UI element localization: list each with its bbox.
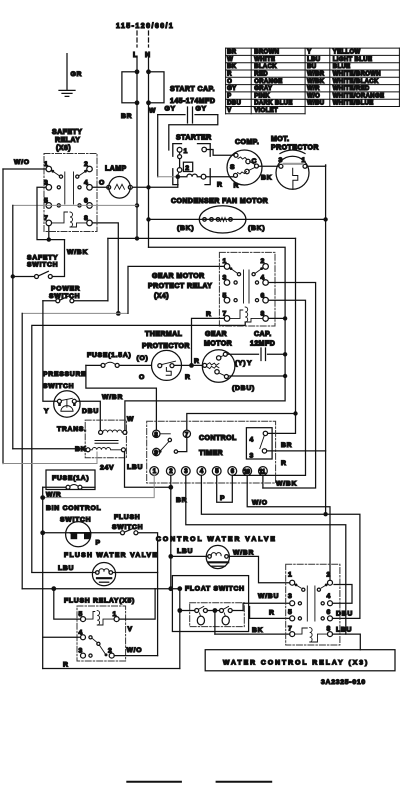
svg-text:2: 2 xyxy=(169,469,173,475)
svg-text:THERMAL: THERMAL xyxy=(145,331,183,338)
relay X6 arm pin2 xyxy=(79,170,87,175)
svg-text:BK: BK xyxy=(227,64,237,70)
footer line left xyxy=(127,781,181,783)
svg-text:R: R xyxy=(234,183,240,190)
timer pin7 contact xyxy=(178,438,187,452)
timer pin 3 xyxy=(181,467,190,476)
svg-text:WHITE: WHITE xyxy=(254,57,275,63)
wire float mid drop xyxy=(214,611,216,635)
fuse 1.5A xyxy=(101,363,105,367)
svg-text:COMP.: COMP. xyxy=(235,139,259,146)
svg-text:3A2325-010: 3A2325-010 xyxy=(321,679,366,686)
relay X6 arm pin1 xyxy=(51,170,59,175)
svg-text:FLUSH: FLUSH xyxy=(114,514,140,521)
junction dots plug xyxy=(135,69,140,74)
svg-text:START CAP.: START CAP. xyxy=(170,86,215,93)
wire W/R rail xyxy=(42,487,44,668)
relay X6 bars xyxy=(65,172,74,204)
relay X3 box xyxy=(286,564,340,645)
svg-text:C: C xyxy=(252,158,258,165)
junction starter bottom xyxy=(176,174,181,179)
float contacts xyxy=(195,609,199,613)
relay X5 arm xyxy=(92,638,106,654)
svg-text:4: 4 xyxy=(327,593,332,600)
flush switch xyxy=(121,531,125,535)
svg-text:BR: BR xyxy=(227,50,237,56)
wire X4 pin7 to gear node xyxy=(192,318,225,365)
svg-text:(X4): (X4) xyxy=(154,293,169,300)
svg-text:BLUE: BLUE xyxy=(333,64,351,70)
svg-text:WHITE/BLUE: WHITE/BLUE xyxy=(333,101,374,107)
junction BR-powerswitch wire xyxy=(135,236,139,240)
relay X5 box xyxy=(77,606,126,661)
wire thermal to gear motor xyxy=(175,364,203,366)
protector heater bar xyxy=(284,163,303,165)
junction flush to X5 pin5 xyxy=(51,586,56,591)
svg-text:115-120/60/1: 115-120/60/1 xyxy=(116,23,174,30)
wire W/O left rail xyxy=(2,169,4,464)
svg-text:PRESSURE: PRESSURE xyxy=(43,371,86,378)
svg-text:PINK: PINK xyxy=(254,93,270,99)
svg-text:12MFD: 12MFD xyxy=(250,341,275,348)
svg-text:FLUSH WATER VALVE: FLUSH WATER VALVE xyxy=(64,552,158,559)
power switch xyxy=(56,299,60,303)
junction R rail timer pin4 wire xyxy=(323,512,327,516)
svg-text:FUSE(1A): FUSE(1A) xyxy=(52,475,89,482)
svg-text:W/BR: W/BR xyxy=(233,550,254,557)
fuse 1A xyxy=(43,486,66,488)
svg-text:LBU: LBU xyxy=(336,627,352,634)
timer pin 9 xyxy=(153,448,160,455)
wire float to X3 pin3 W/BU xyxy=(243,603,290,610)
svg-text:Y: Y xyxy=(307,50,311,56)
svg-text:W: W xyxy=(149,108,156,115)
wire timer pin10 W/O xyxy=(247,475,330,580)
svg-text:SWITCH: SWITCH xyxy=(49,293,80,300)
capacitor start cap xyxy=(158,107,218,123)
junction BR-gray row xyxy=(135,203,139,207)
svg-text:R: R xyxy=(206,311,212,318)
wire timer pin7 top xyxy=(187,414,296,431)
svg-text:PROTECTOR: PROTECTOR xyxy=(142,343,190,350)
wire valve right to riser xyxy=(113,572,158,574)
svg-text:SAFETY: SAFETY xyxy=(27,255,58,262)
svg-text:DBU: DBU xyxy=(227,101,241,107)
timer pin 6 xyxy=(228,467,237,476)
timer pin 7 xyxy=(183,430,190,437)
svg-text:2: 2 xyxy=(327,572,332,579)
svg-text:6: 6 xyxy=(231,469,235,475)
svg-text:4: 4 xyxy=(200,469,204,475)
svg-text:V: V xyxy=(128,626,133,633)
svg-text:W/R: W/R xyxy=(46,492,61,499)
wire flush switch to valve riser xyxy=(138,533,158,656)
wire starter bottom row gray xyxy=(158,176,176,178)
control timer box xyxy=(147,421,276,483)
svg-text:S: S xyxy=(230,164,235,171)
relay X3 arm pin2 xyxy=(321,584,328,588)
svg-text:DBU: DBU xyxy=(336,611,353,618)
svg-text:(BK): (BK) xyxy=(177,225,194,232)
protector bimetal xyxy=(293,168,298,189)
wire BK secondary left xyxy=(13,448,86,450)
thermal protector circle xyxy=(152,350,182,380)
svg-text:FLUSH RELAY(X5): FLUSH RELAY(X5) xyxy=(64,598,135,605)
junction pin2 LBU xyxy=(168,485,173,490)
wire flush relay top row xyxy=(22,588,180,590)
svg-text:(X6): (X6) xyxy=(56,145,71,152)
starter bracket top-left xyxy=(173,144,182,157)
svg-text:3: 3 xyxy=(250,453,255,460)
svg-text:W/R: W/R xyxy=(307,86,320,92)
control water valve circle xyxy=(206,545,229,568)
svg-text:GY: GY xyxy=(227,86,236,92)
junction W-lamp wire xyxy=(146,185,150,189)
svg-text:O: O xyxy=(227,79,232,85)
svg-text:Y: Y xyxy=(247,360,252,367)
wire N lead xyxy=(148,58,150,72)
starter terminal 1 xyxy=(177,147,182,152)
wire N dashed lead xyxy=(148,31,150,47)
relay X6 coil xyxy=(52,212,87,227)
junction pin8 W net xyxy=(283,316,287,320)
wire power switch riser xyxy=(107,238,109,300)
wire X6 pin1 W/O xyxy=(3,168,46,170)
wire power switch left to pressure xyxy=(43,301,58,402)
starter contact below 1 xyxy=(178,155,182,159)
svg-text:LAMP: LAMP xyxy=(105,166,127,173)
svg-text:4: 4 xyxy=(250,437,255,444)
svg-text:SAFETY: SAFETY xyxy=(52,129,82,136)
wire X5 pin1 riser xyxy=(119,589,155,619)
svg-text:(Y): (Y) xyxy=(235,360,246,367)
wire rail x22 down xyxy=(21,313,23,588)
svg-text:VIOLET: VIOLET xyxy=(254,108,278,114)
svg-text:WHITE/RED: WHITE/RED xyxy=(333,86,370,92)
relay X3 arm pin1 xyxy=(295,584,302,588)
lamp filament W xyxy=(115,184,125,189)
svg-text:145-174MFD: 145-174MFD xyxy=(170,98,215,105)
water control relay label box xyxy=(205,650,395,671)
ground GR symbol xyxy=(59,54,75,97)
wire float feed drop xyxy=(179,589,181,669)
svg-text:P: P xyxy=(220,495,225,502)
wire BK to X3 pin7 xyxy=(215,633,290,635)
svg-text:CONTROL: CONTROL xyxy=(199,435,237,442)
svg-text:1: 1 xyxy=(184,148,189,155)
timer pin 2 xyxy=(166,467,175,476)
lamp circle xyxy=(109,177,131,199)
svg-text:ORANGE: ORANGE xyxy=(254,79,282,85)
wire R to X3 pin5 xyxy=(250,607,290,619)
junction gear node xyxy=(189,363,194,368)
svg-text:SWITCH: SWITCH xyxy=(43,383,74,390)
svg-text:R: R xyxy=(217,182,223,189)
starter top-right terminal xyxy=(202,147,207,152)
svg-text:R: R xyxy=(269,610,275,617)
svg-text:1: 1 xyxy=(288,572,293,579)
fuse 1A box xyxy=(46,470,95,490)
svg-text:SWITCH: SWITCH xyxy=(27,262,58,269)
junction pin7 drop xyxy=(48,226,50,240)
svg-text:R: R xyxy=(185,374,191,381)
wire control valve to X3 pin1 xyxy=(228,556,289,582)
pressure switch circle xyxy=(54,391,80,417)
timer pin 10 xyxy=(243,467,252,476)
transformer primary xyxy=(99,430,103,434)
wire gear top to cap xyxy=(228,353,259,355)
svg-text:BR: BR xyxy=(121,113,132,120)
junction LBU control valve xyxy=(168,554,173,559)
transformer core xyxy=(95,441,118,444)
svg-text:(BK): (BK) xyxy=(248,225,265,232)
wire bottom R xyxy=(43,668,180,670)
svg-text:LBU: LBU xyxy=(58,565,74,572)
timer switch arm 8-9 xyxy=(160,433,170,435)
wire X6 pin3 corner xyxy=(37,187,65,239)
junction safety switch xyxy=(11,274,15,278)
condenser fan motor ellipse xyxy=(199,206,246,233)
wire LBU secondary right drop xyxy=(125,452,169,488)
svg-text:R: R xyxy=(194,358,200,365)
wire lamp row to starter xyxy=(151,179,178,187)
wire X6 pin4 to lamp xyxy=(92,186,108,188)
wire LBU to control valve xyxy=(171,555,208,557)
motor protector circle xyxy=(276,156,309,189)
junction W net cap xyxy=(283,352,287,356)
relay X4 arm pin1 xyxy=(230,268,238,273)
svg-text:W/BU: W/BU xyxy=(307,101,324,107)
svg-text:GEAR MOTOR: GEAR MOTOR xyxy=(152,273,205,280)
wire BR rail xyxy=(136,103,138,239)
timer pin 4 xyxy=(197,467,206,476)
svg-text:24V: 24V xyxy=(100,465,114,472)
svg-text:W/O: W/O xyxy=(127,647,143,654)
svg-text:BR: BR xyxy=(176,497,187,504)
relay X6 box xyxy=(44,154,97,232)
svg-text:YELLOW: YELLOW xyxy=(333,50,361,56)
svg-text:GEAR: GEAR xyxy=(205,331,227,338)
wire W net vertical xyxy=(125,247,285,430)
svg-text:BIN CONTROL: BIN CONTROL xyxy=(46,505,101,512)
wire timer sw pin3 R xyxy=(267,450,326,452)
wire starter to compressor S xyxy=(207,150,235,156)
wire riser to X4 pin1 xyxy=(128,266,224,313)
junction W2 timer pin7 wire xyxy=(293,411,297,415)
svg-text:CONTROL WATER VALVE: CONTROL WATER VALVE xyxy=(156,536,277,543)
svg-text:3: 3 xyxy=(184,469,188,475)
gear motor circle xyxy=(202,350,235,383)
svg-text:R: R xyxy=(227,72,232,78)
svg-text:3: 3 xyxy=(288,593,293,600)
svg-text:TIMER: TIMER xyxy=(199,450,223,457)
svg-text:BR: BR xyxy=(281,442,292,449)
svg-text:GRAY: GRAY xyxy=(254,86,272,92)
legend wire color table xyxy=(226,48,400,114)
wire heater to compressor R xyxy=(206,176,234,178)
svg-text:TRANS.: TRANS. xyxy=(57,426,87,433)
footer line right xyxy=(217,781,272,783)
svg-text:CONDENSER FAN MOTOR: CONDENSER FAN MOTOR xyxy=(171,198,268,205)
junction W-condenser wire xyxy=(146,217,150,221)
svg-text:FLOAT SWITCH: FLOAT SWITCH xyxy=(185,586,245,593)
junction bin switch xyxy=(40,530,45,535)
wire LBU rail to valve xyxy=(32,572,96,574)
wire X5 pin5 feed xyxy=(54,589,81,619)
svg-text:W/BK: W/BK xyxy=(307,79,325,85)
compressor motor circle xyxy=(227,150,262,185)
relay X6 contacts rows xyxy=(57,186,60,189)
float switch inner box xyxy=(190,603,245,627)
svg-text:W/BR: W/BR xyxy=(102,394,123,401)
wire through bin switch xyxy=(43,532,121,534)
wire X4 coil bottom to LBU rail xyxy=(32,322,245,572)
svg-text:SWITCH: SWITCH xyxy=(112,524,143,531)
svg-text:DARK BLUE: DARK BLUE xyxy=(254,101,292,107)
svg-text:W/BU: W/BU xyxy=(258,593,279,600)
svg-text:1: 1 xyxy=(153,469,157,475)
svg-text:(O): (O) xyxy=(137,355,149,362)
wire startcap left leg xyxy=(157,115,159,177)
svg-text:WATER CONTROL RELAY (X3): WATER CONTROL RELAY (X3) xyxy=(223,660,369,667)
svg-text:WHITE/BLACK: WHITE/BLACK xyxy=(333,79,379,85)
junction condenser-right rail xyxy=(323,217,327,221)
capacitor 12MFD xyxy=(261,348,285,361)
svg-text:5: 5 xyxy=(288,609,293,616)
wire timer pin5-6 P loop xyxy=(217,475,233,502)
wire timer pin4 riser DBU xyxy=(201,475,360,618)
svg-text:W/O: W/O xyxy=(14,159,30,166)
timer pin 8 xyxy=(153,430,160,437)
svg-text:MOT.: MOT. xyxy=(271,136,290,143)
svg-text:LIGHT BLUE: LIGHT BLUE xyxy=(333,57,373,63)
svg-text:BK: BK xyxy=(75,446,86,453)
wire gray row left drop rail xyxy=(12,205,14,448)
svg-text:5: 5 xyxy=(215,469,219,475)
wire W rail xyxy=(148,103,150,248)
svg-text:P: P xyxy=(227,93,231,99)
wire right rail (protector/R) xyxy=(325,165,327,514)
svg-text:MOTOR: MOTOR xyxy=(204,341,232,348)
svg-text:LBU: LBU xyxy=(177,548,193,555)
svg-text:6: 6 xyxy=(327,609,332,616)
svg-text:W/O: W/O xyxy=(252,500,268,507)
svg-text:W/O: W/O xyxy=(307,93,320,99)
svg-text:LBU: LBU xyxy=(307,57,320,63)
timer pin 11 xyxy=(259,467,268,476)
wire X3 pin4 loop xyxy=(333,585,353,604)
starter bracket bottom-right xyxy=(205,169,210,185)
svg-text:N: N xyxy=(145,52,151,59)
svg-text:O: O xyxy=(99,180,105,187)
svg-text:P: P xyxy=(96,540,101,547)
wire X4 pin4 riser BR xyxy=(263,283,316,489)
relay X4 contacts xyxy=(234,281,237,284)
wire L lead xyxy=(136,58,138,72)
transformer secondary xyxy=(86,448,90,452)
relay X3 coil xyxy=(295,628,328,642)
svg-text:V: V xyxy=(227,108,231,114)
wire X6 pin8 drop xyxy=(92,223,118,314)
svg-text:LBU: LBU xyxy=(127,464,143,471)
svg-text:CAP.: CAP. xyxy=(254,331,272,338)
wire startcap right leg xyxy=(169,115,218,150)
plug block left xyxy=(122,72,137,103)
timer pin 1 xyxy=(150,467,159,476)
svg-text:W: W xyxy=(127,416,134,423)
svg-text:BLACK: BLACK xyxy=(254,64,277,70)
starter contact 2 with box xyxy=(179,152,181,167)
relay X5 coil xyxy=(86,611,115,625)
svg-text:BU: BU xyxy=(307,64,316,70)
relay X4 box xyxy=(219,252,275,326)
wire X4 pin8 xyxy=(268,317,285,319)
junction W net gearmotor xyxy=(283,374,287,378)
svg-text:BROWN: BROWN xyxy=(254,50,279,56)
svg-text:Y: Y xyxy=(44,408,49,415)
svg-text:3: 3 xyxy=(279,157,284,164)
wire protector 1 to right rail xyxy=(307,165,326,166)
wire X6 gray row pins 5-6 xyxy=(13,204,137,206)
float switch row xyxy=(180,610,243,612)
wire compressor C to protector xyxy=(259,165,279,167)
wire L dashed lead xyxy=(136,31,138,47)
wire condenser row xyxy=(151,218,326,220)
svg-text:GY: GY xyxy=(165,106,176,113)
svg-text:BK: BK xyxy=(261,175,272,182)
wire timer pin11 W/BK xyxy=(262,475,264,488)
wire timer pin1 to W/R node xyxy=(43,475,155,497)
svg-text:STARTER: STARTER xyxy=(176,135,212,142)
starter heater coil xyxy=(180,174,201,177)
wire gear bottom DBU xyxy=(229,375,286,377)
wire gray 313 row xyxy=(22,312,128,314)
svg-text:2: 2 xyxy=(185,165,190,172)
safety switch xyxy=(13,276,35,278)
svg-text:W/BR: W/BR xyxy=(307,72,325,78)
wire fuse to timer pin8 xyxy=(86,365,156,430)
floats xyxy=(197,616,204,625)
junction LBU flush wire xyxy=(168,586,173,591)
relay X4 coil xyxy=(230,307,263,322)
svg-text:GY: GY xyxy=(196,106,207,113)
float switch box xyxy=(172,576,248,632)
bin control switch circle xyxy=(66,522,91,547)
svg-text:DBU: DBU xyxy=(82,408,99,415)
timer pin 5 xyxy=(212,467,221,476)
svg-text:W/BK: W/BK xyxy=(276,481,297,488)
timer internal switch box xyxy=(246,428,272,459)
svg-text:BK: BK xyxy=(252,627,263,634)
wire X5 pin4 feed xyxy=(43,636,81,638)
relay X3 bars xyxy=(307,586,315,621)
svg-text:R: R xyxy=(281,460,287,467)
svg-text:O: O xyxy=(139,374,145,381)
svg-text:RELAY: RELAY xyxy=(55,137,80,144)
wire power switch row W2 xyxy=(108,237,296,239)
svg-text:(DBU): (DBU) xyxy=(232,385,255,392)
starter bracket top-right xyxy=(198,144,211,157)
wire pressure to trans W/BR xyxy=(76,401,100,430)
relay X3 contacts xyxy=(298,602,301,605)
svg-text:RED: RED xyxy=(254,72,268,78)
wire timer pin3 riser BR xyxy=(186,475,346,634)
svg-text:W: W xyxy=(227,57,233,63)
svg-text:FUSE(1.5A): FUSE(1.5A) xyxy=(87,352,132,359)
condenser M symbol xyxy=(221,218,227,222)
junction pin8 gray wire xyxy=(116,311,121,316)
relay X4 arm pin2 xyxy=(256,268,264,273)
